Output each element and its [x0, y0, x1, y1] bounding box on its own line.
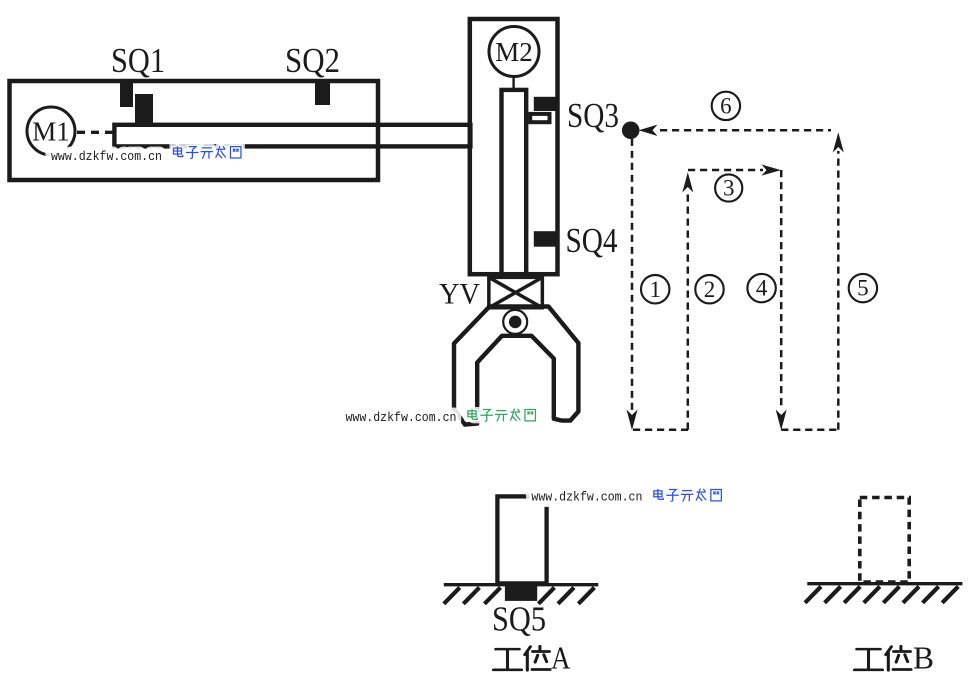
svg-text:SQ5: SQ5: [492, 600, 546, 638]
svg-text:M1: M1: [32, 117, 70, 147]
svg-text:1: 1: [649, 277, 661, 302]
svg-text:2: 2: [704, 277, 716, 302]
svg-text:www.dzkfw.com.cn: www.dzkfw.com.cn: [531, 490, 642, 505]
svg-text:SQ4: SQ4: [566, 222, 618, 260]
svg-text:4: 4: [756, 276, 768, 301]
svg-text:SQ3: SQ3: [567, 97, 619, 135]
svg-text:6: 6: [720, 94, 732, 119]
svg-text:YV: YV: [439, 278, 480, 311]
svg-text:SQ1: SQ1: [111, 42, 165, 80]
svg-text:3: 3: [723, 176, 735, 201]
svg-text:M2: M2: [495, 37, 533, 67]
svg-text:5: 5: [857, 276, 869, 301]
svg-text:B: B: [913, 640, 934, 676]
svg-text:SQ2: SQ2: [285, 42, 340, 80]
svg-text:www.dzkfw.com.cn: www.dzkfw.com.cn: [346, 410, 457, 425]
svg-text:A: A: [551, 640, 571, 676]
svg-text:www.dzkfw.com.cn: www.dzkfw.com.cn: [51, 149, 162, 164]
